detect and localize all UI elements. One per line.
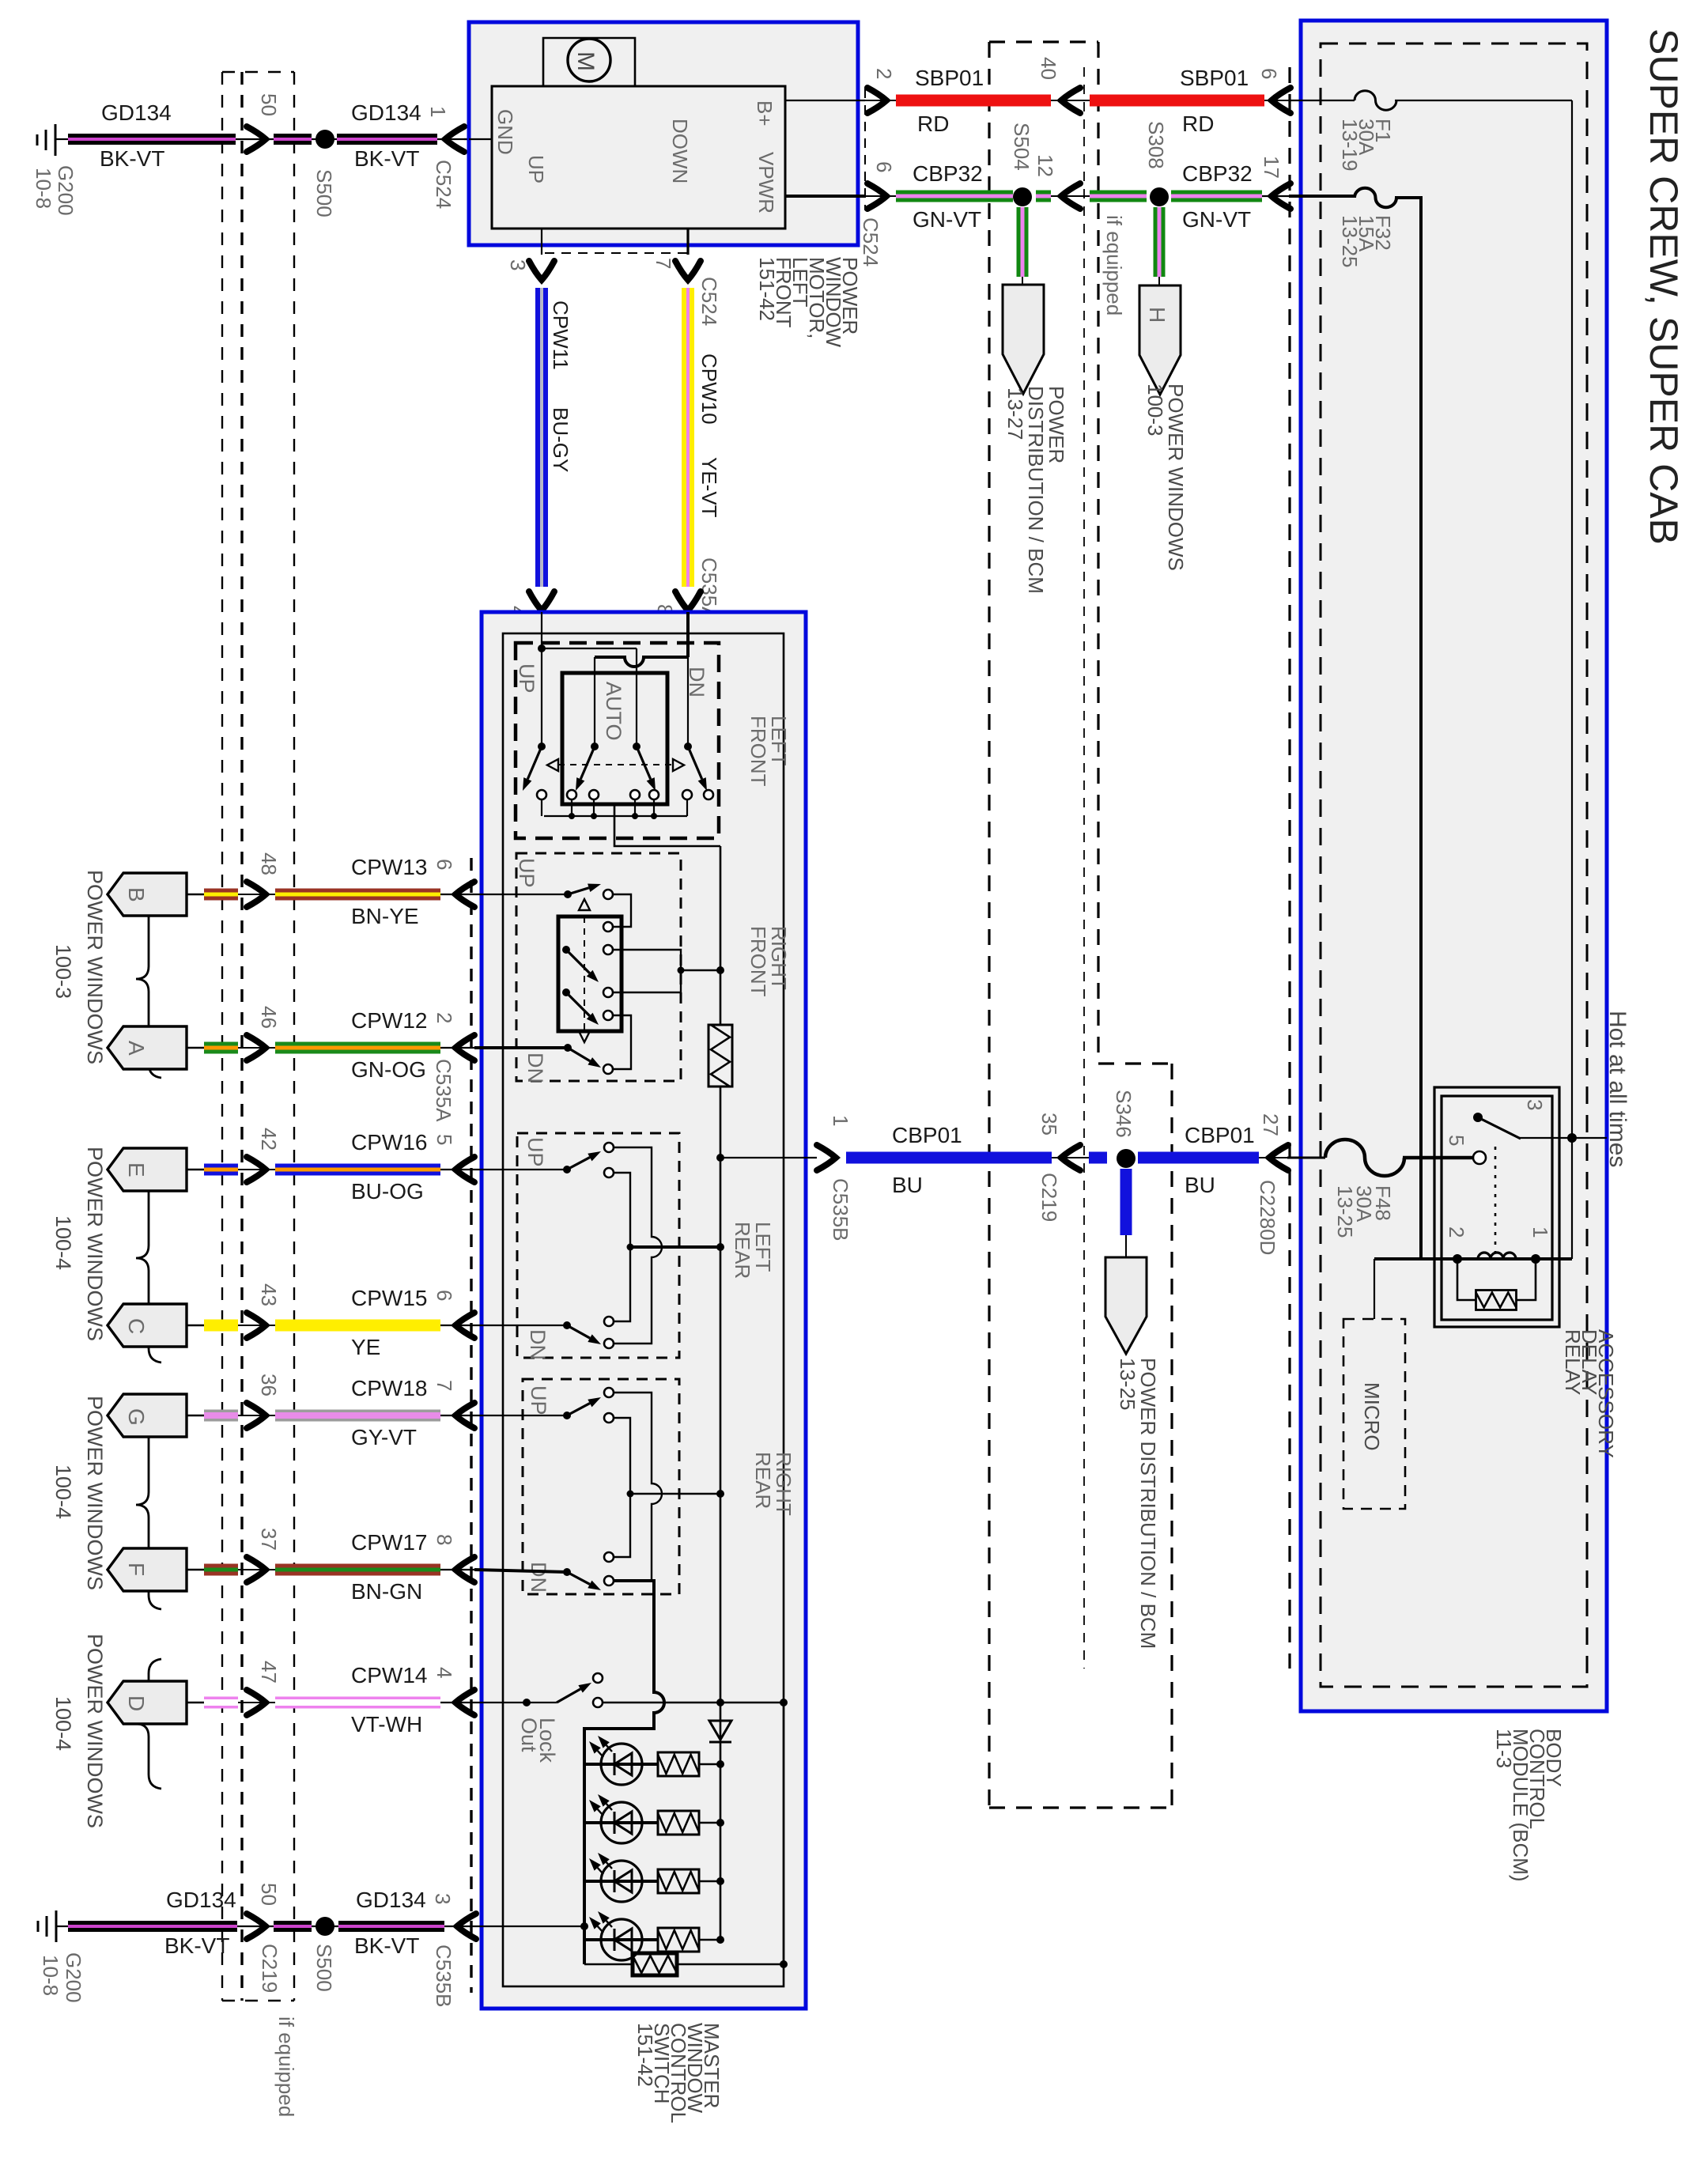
svg-text:11-3: 11-3 <box>1492 1729 1516 1768</box>
wire GD134 BK-VT segment (bottom, ground to C219) <box>68 1921 237 1932</box>
wire CPW18 GY-VT main segment <box>275 1410 440 1422</box>
connector C535A/C535B dashed boundary at master switch <box>470 858 472 1993</box>
svg-text:A: A <box>124 1041 149 1056</box>
wire CBP01 BU segment 1 <box>846 1152 1052 1164</box>
svg-text:REAR: REAR <box>751 1452 775 1509</box>
svg-text:RD: RD <box>1182 111 1214 136</box>
svg-text:1: 1 <box>829 1115 852 1126</box>
svg-text:GD134: GD134 <box>166 1888 236 1912</box>
label POWER WINDOWS 100-3 with brace (B A) <box>136 880 161 1078</box>
svg-text:100-4: 100-4 <box>51 1464 75 1519</box>
wire CPW15 lead into switch <box>474 1325 567 1326</box>
svg-text:CPW12: CPW12 <box>351 1008 427 1033</box>
inner dashed line of C219 box <box>240 72 243 2001</box>
svg-text:GND: GND <box>493 109 517 155</box>
svg-text:D: D <box>124 1695 149 1711</box>
wire CPW14 lead into switch <box>474 1702 527 1703</box>
svg-text:CPW13: CPW13 <box>351 855 427 879</box>
right front arms <box>564 890 572 898</box>
svg-text:REAR: REAR <box>731 1222 754 1279</box>
wire from F48 to relay pin 5 <box>1403 1156 1472 1160</box>
ground symbol G200 (bottom chain) <box>55 1910 58 1942</box>
window circuit tag B <box>108 873 187 916</box>
svg-text:VPWR: VPWR <box>754 152 778 214</box>
svg-text:F: F <box>124 1563 149 1576</box>
splice S346 <box>1117 1149 1136 1168</box>
switch RIGHT REAR (dashed box) <box>523 1379 679 1594</box>
wire bus to C535B pin 1 output <box>720 1157 817 1158</box>
svg-text:13-19: 13-19 <box>1338 119 1362 172</box>
svg-text:13-25: 13-25 <box>1338 215 1362 268</box>
svg-text:GY-VT: GY-VT <box>351 1425 417 1449</box>
svg-text:S346: S346 <box>1112 1090 1136 1138</box>
svg-text:GD134: GD134 <box>351 100 421 125</box>
right rear contact wiring <box>614 1393 662 1581</box>
ground feed junction on LED bus <box>580 1922 588 1930</box>
right rear DN arm and contacts <box>563 1568 571 1576</box>
svg-text:VT-WH: VT-WH <box>351 1712 422 1737</box>
svg-text:CBP01: CBP01 <box>1185 1123 1255 1147</box>
wire CPW16 lead into switch <box>474 1169 567 1170</box>
svg-text:C: C <box>124 1318 149 1334</box>
svg-text:GN-VT: GN-VT <box>1182 207 1251 232</box>
svg-text:5: 5 <box>1445 1135 1468 1146</box>
wire into motor GND pin stub <box>464 138 469 140</box>
svg-text:BU-OG: BU-OG <box>351 1179 424 1204</box>
svg-text:6: 6 <box>872 161 896 172</box>
svg-text:C524: C524 <box>432 160 455 209</box>
fuse F32 15A 13-25 <box>1355 188 1396 207</box>
wire GD134 short segment after C219 <box>274 134 312 145</box>
motor M circle <box>543 38 635 86</box>
svg-text:C524: C524 <box>697 277 721 326</box>
svg-text:46: 46 <box>257 1006 281 1029</box>
svg-text:SBP01: SBP01 <box>1180 66 1249 90</box>
wire SBP01 RD segment 2 <box>1090 95 1264 107</box>
window circuit tag E <box>108 1148 187 1191</box>
POWER DISTRIBUTION / BCM 13-27 dashed boundary box <box>988 42 990 1808</box>
svg-text:C219: C219 <box>1037 1173 1061 1222</box>
left front contact bus <box>544 815 687 817</box>
svg-text:BU: BU <box>892 1173 923 1197</box>
window circuit tag G <box>108 1394 187 1437</box>
svg-text:6: 6 <box>433 1290 456 1301</box>
wire from F1 to relay feed <box>1395 100 1572 101</box>
svg-text:50: 50 <box>257 1883 281 1906</box>
wire GD134 short segment (bottom) <box>274 1921 312 1932</box>
wire pin4 lead to left front UP <box>541 612 542 746</box>
window circuit tag F <box>108 1548 187 1591</box>
svg-text:CBP01: CBP01 <box>892 1123 962 1147</box>
svg-text:C2280D: C2280D <box>1256 1180 1279 1255</box>
svg-text:151-42: 151-42 <box>755 257 779 321</box>
diode on bus <box>709 1721 731 1740</box>
wire CBP32 GN-VT segment 3 <box>1171 191 1262 202</box>
svg-text:B+: B+ <box>753 100 777 127</box>
connector C524 female arrow (motor GND) <box>437 138 474 140</box>
svg-text:4: 4 <box>433 1667 456 1678</box>
BCM inner dashed border <box>1321 43 1587 1687</box>
svg-text:12: 12 <box>1033 154 1057 177</box>
master switch internal supply bus <box>720 846 722 1025</box>
svg-text:GD134: GD134 <box>101 100 172 125</box>
svg-text:10-8: 10-8 <box>32 168 55 209</box>
relay pin 5 contact <box>1473 1151 1486 1164</box>
wire pin8 lead to left front DN <box>686 612 690 657</box>
connector C535B female arrow (master switch ground) <box>444 1926 476 1927</box>
svg-text:48: 48 <box>257 852 281 875</box>
window circuit tag A <box>108 1026 187 1069</box>
left front switch arms <box>538 743 546 750</box>
window circuit tag D <box>108 1681 187 1724</box>
svg-text:POWER WINDOWS: POWER WINDOWS <box>83 1147 107 1341</box>
wire CBP32 short segment and pin 12 arrow <box>1036 191 1051 202</box>
LED indicator 3 with resistor <box>584 1880 659 1883</box>
LED indicator 4 with resistor <box>584 1938 659 1941</box>
wire ground lead into master switch to LED bus <box>476 1926 584 1927</box>
relay pin 3 contact and arm <box>1473 1113 1483 1122</box>
resistor on bus (right front) <box>709 1025 732 1087</box>
wire CBP32 GN-VT segment 1 <box>896 191 1013 202</box>
wire CPW12 lead into switch <box>474 1046 568 1049</box>
relay pin 2 <box>1453 1254 1462 1264</box>
svg-text:BK-VT: BK-VT <box>354 1933 419 1958</box>
svg-text:GN-OG: GN-OG <box>351 1057 426 1082</box>
AUTO box <box>562 673 667 804</box>
svg-text:6: 6 <box>433 859 456 870</box>
left front output to bus <box>614 804 720 846</box>
MICRO dashed box <box>1343 1319 1405 1509</box>
svg-text:AUTO: AUTO <box>602 682 625 741</box>
svg-text:E: E <box>124 1162 149 1177</box>
label POWER WINDOWS 100-4 with brace (G F) <box>136 1400 161 1609</box>
splice S500 (bottom) <box>316 1917 334 1936</box>
LED indicator 2 with resistor <box>584 1821 659 1824</box>
svg-text:C535B: C535B <box>432 1944 455 2008</box>
right rear UP arm and contacts <box>563 1412 571 1419</box>
right front inner box <box>558 916 622 1031</box>
svg-text:13-25: 13-25 <box>1333 1185 1357 1238</box>
S346 drop wire BU <box>1120 1169 1132 1235</box>
svg-text:BK-VT: BK-VT <box>354 146 419 171</box>
wire CPW17 lead into switch <box>474 1570 567 1572</box>
left front travel dashed line and direction triangles <box>558 764 673 765</box>
wire CPW14 VT-WH main segment <box>275 1697 440 1709</box>
svg-text:CPW15: CPW15 <box>351 1286 427 1310</box>
svg-text:S308: S308 <box>1144 121 1168 169</box>
svg-text:50: 50 <box>257 93 281 116</box>
pin 1 arrow C535B (master switch output) <box>817 1145 836 1170</box>
svg-text:RD: RD <box>917 111 949 136</box>
svg-text:151-42: 151-42 <box>633 2023 657 2087</box>
svg-text:UP: UP <box>523 1137 547 1167</box>
relay coil row wire <box>1374 1257 1572 1260</box>
wire CPW15 YE stub <box>187 1325 204 1327</box>
pointer tag POWER DISTRIBUTION / BCM 13-27 <box>1003 285 1044 394</box>
switch LEFT REAR (dashed box) <box>517 1133 679 1358</box>
connector C535A pin 4 arrow <box>529 591 554 610</box>
bottom resistor <box>584 1963 633 1965</box>
svg-text:CBP32: CBP32 <box>1182 161 1253 186</box>
pin 2 arrow SBP01 <box>865 100 896 101</box>
svg-text:2: 2 <box>872 68 896 79</box>
svg-text:FRONT: FRONT <box>746 716 770 787</box>
motor UP output pin 3 lead <box>541 229 542 255</box>
svg-text:CPW16: CPW16 <box>351 1130 427 1155</box>
motor module inner box <box>492 86 785 229</box>
wire from pin 27 to fuse F48 <box>1287 1157 1325 1159</box>
wire CPW13 BN-YE stub <box>187 894 204 896</box>
svg-text:UP: UP <box>527 1385 550 1415</box>
wire CPW16 BU-OG main segment <box>275 1164 440 1176</box>
svg-text:3: 3 <box>506 259 530 270</box>
if equipped dashed boundary (S308 section) <box>1083 67 1085 1669</box>
relay pin 3 wire to Hot at all times <box>1519 1137 1607 1139</box>
right front output to bus <box>681 969 720 971</box>
svg-text:10-8: 10-8 <box>39 1955 62 1996</box>
component box: MASTER WINDOW CONTROL SWITCH 151-42 <box>482 612 806 2009</box>
left rear DN arm and contacts <box>563 1321 571 1329</box>
pointer tag POWER DISTRIBUTION / BCM 13-25 <box>1105 1257 1147 1354</box>
splice S308 <box>1150 187 1169 206</box>
wire GD134 BK-VT segment (bottom, S500 to C535B) <box>338 1921 444 1932</box>
wire from F32 down to relay coil <box>1395 198 1421 1259</box>
component box: POWER WINDOW MOTOR LEFT FRONT 151-42 <box>469 22 858 245</box>
LED indicator 1 with resistor <box>584 1763 659 1766</box>
pin 3 arrow and label <box>529 261 554 280</box>
svg-text:CPW17: CPW17 <box>351 1530 427 1555</box>
svg-text:CPW10: CPW10 <box>697 353 721 425</box>
label POWER WINDOWS 100-4 with brace (D) <box>136 1659 161 1789</box>
wire into BCM fuse F32 <box>1289 195 1355 198</box>
wire CPW17 BN-GN stub <box>187 1569 204 1571</box>
pointer tag H to POWER WINDOWS 100-3 <box>1139 285 1181 395</box>
splice S500 (top) <box>316 130 334 149</box>
connector C524 dashed link (B+/VPWR) <box>864 89 866 210</box>
right rear DN feed to lockout/LED section <box>584 1581 664 1964</box>
svg-text:13-25: 13-25 <box>1116 1358 1139 1411</box>
wire CPW18 lead into switch <box>474 1415 567 1416</box>
svg-text:C535B: C535B <box>829 1178 852 1242</box>
wire CPW13 lead into switch <box>474 894 568 895</box>
svg-text:1: 1 <box>426 106 450 117</box>
wire CPW15 YE main segment <box>275 1320 440 1332</box>
switch Lock Out <box>523 1699 531 1706</box>
wire GD134 BK-VT segment (S500 to C524) <box>337 134 437 145</box>
connector C535A pin 8 arrow <box>675 591 701 610</box>
svg-text:UP: UP <box>524 155 548 183</box>
wire CPW18 GY-VT stub <box>187 1415 204 1417</box>
svg-text:27: 27 <box>1259 1113 1283 1136</box>
svg-text:42: 42 <box>257 1128 281 1151</box>
left rear UP arm and contacts <box>563 1166 571 1173</box>
ground symbol G200 (top chain) <box>55 124 57 156</box>
right front contact bridges <box>613 894 631 927</box>
svg-text:13-27: 13-27 <box>1003 387 1027 440</box>
svg-text:40: 40 <box>1037 57 1060 80</box>
svg-text:RELAY: RELAY <box>1561 1329 1585 1395</box>
splice S504 <box>1013 187 1032 206</box>
svg-text:if equipped: if equipped <box>274 2016 298 2117</box>
connector C219 dashed boundary box (left) <box>221 72 223 2001</box>
svg-text:6: 6 <box>1257 68 1281 79</box>
svg-text:C219: C219 <box>258 1944 282 1993</box>
svg-text:35: 35 <box>1037 1113 1061 1136</box>
svg-text:MICRO: MICRO <box>1360 1382 1384 1451</box>
left rear output to bus <box>630 1245 720 1249</box>
wire CPW14 VT-WH stub <box>187 1702 204 1704</box>
svg-text:B: B <box>124 887 149 902</box>
window circuit tag C <box>108 1304 187 1347</box>
svg-text:GN-VT: GN-VT <box>913 207 981 232</box>
svg-text:G200: G200 <box>54 165 77 216</box>
component box: BODY CONTROL MODULE (BCM) 11-3 <box>1301 21 1607 1711</box>
svg-text:M: M <box>572 51 599 71</box>
wire CBP01 BU segment 2 <box>1138 1152 1259 1164</box>
svg-text:3: 3 <box>431 1893 455 1904</box>
relay pin 1 <box>1531 1254 1540 1264</box>
svg-text:17: 17 <box>1260 156 1283 179</box>
svg-text:DN: DN <box>527 1562 550 1593</box>
left rear contact wiring <box>614 1147 662 1344</box>
svg-text:DN: DN <box>523 1053 547 1083</box>
S308 drop wire GN-VT <box>1154 207 1166 277</box>
svg-text:BU: BU <box>1185 1173 1215 1197</box>
svg-text:36: 36 <box>257 1374 281 1396</box>
svg-text:S504: S504 <box>1010 123 1033 171</box>
wire CBP32 GN-VT segment 2 <box>1090 191 1147 202</box>
label POWER WINDOWS 100-4 with brace (E C) <box>136 1154 161 1362</box>
motor DOWN output pin 7 lead <box>686 229 689 255</box>
svg-text:47: 47 <box>257 1661 281 1684</box>
svg-text:100-3: 100-3 <box>51 944 75 999</box>
wire CPW12 GN-OG stub <box>187 1047 204 1049</box>
S504 drop wire GN-VT <box>1017 207 1029 277</box>
svg-text:S500: S500 <box>312 169 336 217</box>
svg-text:DOWN: DOWN <box>668 119 692 183</box>
svg-text:BK-VT: BK-VT <box>100 146 164 171</box>
svg-text:1: 1 <box>1529 1226 1552 1238</box>
svg-text:C535A: C535A <box>432 1059 455 1122</box>
wire VPWR lead out of motor <box>785 195 865 198</box>
svg-text:FRONT: FRONT <box>746 926 770 997</box>
svg-text:BN-GN: BN-GN <box>351 1579 422 1604</box>
svg-text:POWER WINDOWS: POWER WINDOWS <box>83 1634 107 1828</box>
svg-text:5: 5 <box>433 1134 456 1145</box>
wire CBP01 short segment <box>1089 1152 1107 1164</box>
pin 6 arrow CBP32 <box>865 195 896 197</box>
svg-text:3: 3 <box>1523 1099 1547 1110</box>
svg-text:SUPER CREW, SUPER CAB: SUPER CREW, SUPER CAB <box>1642 28 1686 545</box>
right front contacts <box>603 890 613 899</box>
svg-text:YE: YE <box>351 1335 380 1359</box>
svg-text:UP: UP <box>515 858 538 888</box>
svg-text:BU-GY: BU-GY <box>549 407 572 472</box>
relay armature dotted link <box>1494 1147 1497 1252</box>
relay ACCESSORY DELAY RELAY box <box>1434 1087 1559 1327</box>
svg-text:S500: S500 <box>312 1944 336 1992</box>
wire relay coil to MICRO <box>1374 1259 1375 1319</box>
svg-text:G200: G200 <box>62 1952 85 2003</box>
svg-text:Out: Out <box>517 1718 541 1752</box>
svg-text:if equipped: if equipped <box>1102 215 1126 316</box>
wire into BCM fuse F1 <box>1289 100 1355 101</box>
svg-text:37: 37 <box>257 1528 281 1551</box>
wire CPW10 YE-VT (motor DOWN to master switch) <box>682 288 694 587</box>
svg-text:BN-YE: BN-YE <box>351 904 419 928</box>
wire SBP01 RD segment 1 <box>896 95 1051 107</box>
fuse F1 30A 13-19 <box>1355 91 1396 110</box>
right front travel dashed line and triangles <box>584 916 585 1031</box>
svg-text:POWER WINDOWS: POWER WINDOWS <box>83 1396 107 1590</box>
svg-text:G: G <box>124 1408 149 1426</box>
svg-text:8: 8 <box>433 1534 456 1545</box>
svg-text:7: 7 <box>433 1380 456 1391</box>
relay parallel resistor <box>1457 1259 1476 1300</box>
svg-text:POWER WINDOWS: POWER WINDOWS <box>83 870 107 1064</box>
svg-text:2: 2 <box>433 1012 456 1023</box>
wire CPW13 BN-YE main segment <box>275 889 440 901</box>
svg-text:UP: UP <box>515 663 538 694</box>
svg-text:Hot at all times: Hot at all times <box>1604 1011 1631 1167</box>
wire CPW12 GN-OG main segment <box>275 1042 440 1054</box>
svg-text:CBP32: CBP32 <box>913 161 983 186</box>
svg-text:CPW14: CPW14 <box>351 1663 427 1687</box>
svg-text:2: 2 <box>1445 1226 1468 1238</box>
left front switch top wiring <box>538 644 546 652</box>
svg-text:GD134: GD134 <box>356 1888 426 1912</box>
svg-text:100-3: 100-3 <box>1143 384 1167 437</box>
relay coil <box>1478 1253 1516 1259</box>
svg-text:CPW18: CPW18 <box>351 1376 427 1400</box>
svg-text:7: 7 <box>652 258 675 269</box>
svg-text:100-4: 100-4 <box>51 1696 75 1751</box>
svg-text:100-4: 100-4 <box>51 1215 75 1270</box>
left front switch contacts <box>537 790 546 799</box>
master switch inner frame <box>503 633 784 1986</box>
wire GND lead inside motor box <box>469 138 492 140</box>
svg-text:H: H <box>1145 307 1170 323</box>
svg-text:43: 43 <box>257 1283 281 1306</box>
fuse F48 30A 13-25 <box>1325 1139 1404 1176</box>
svg-text:BK-VT: BK-VT <box>164 1933 229 1958</box>
switch LEFT FRONT (dashed box) <box>516 643 719 838</box>
wire CPW17 BN-GN main segment <box>275 1564 440 1576</box>
wire CPW11 BU-GY (motor UP to master switch) <box>535 288 548 587</box>
svg-text:CPW11: CPW11 <box>549 300 572 370</box>
right rear output to bus <box>630 1493 720 1495</box>
svg-text:SBP01: SBP01 <box>915 66 984 90</box>
wire CPW16 BU-OG stub <box>187 1169 204 1171</box>
svg-text:DN: DN <box>526 1329 550 1360</box>
connector C524 dashed link at motor bottom <box>545 252 687 254</box>
lockout output wire to bus <box>603 1702 784 1703</box>
wire B+ lead out of motor <box>785 100 865 101</box>
switch RIGHT FRONT (dashed box) <box>516 853 681 1081</box>
pin 7 arrow and label <box>675 261 701 280</box>
svg-text:C524: C524 <box>859 217 882 266</box>
wire GD134 BK-VT segment (ground to C219) <box>68 134 236 145</box>
svg-text:YE-VT: YE-VT <box>697 457 721 518</box>
